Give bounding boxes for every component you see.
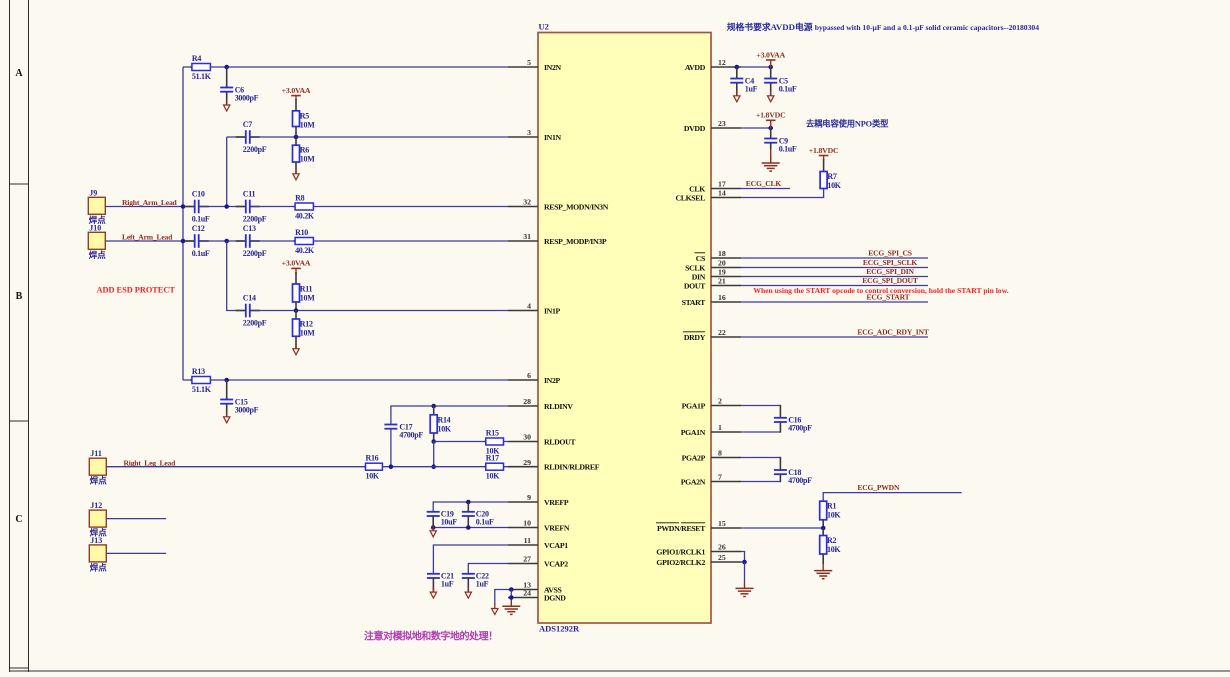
svg-text:R7: R7	[827, 172, 836, 181]
wire IN1P C14 to pin 4	[251, 310, 508, 312]
capacitor C21	[427, 572, 454, 589]
svg-text:R13: R13	[192, 367, 205, 376]
power +3.0VAA	[282, 259, 311, 274]
svg-text:IN1P: IN1P	[544, 307, 561, 316]
pin 6 IN2P	[508, 371, 561, 385]
wire R14 bottom to RLDOUT	[433, 433, 435, 442]
wire rail left vertical	[182, 67, 184, 380]
wire ECG_CLK net	[741, 188, 790, 190]
pin 31 RESP_MODP/IN3P	[508, 232, 607, 246]
pin 26 GPIO1/RCLK1	[656, 543, 741, 557]
svg-text:10K: 10K	[486, 472, 500, 481]
pin 13 AVSS	[508, 581, 562, 595]
svg-text:3000pF: 3000pF	[235, 405, 259, 414]
svg-text:Right_Leg_Lead: Right_Leg_Lead	[124, 458, 177, 467]
pin 3 IN1N	[508, 128, 562, 142]
svg-text:16: 16	[718, 293, 726, 302]
capacitor C10	[185, 190, 210, 224]
wire	[468, 564, 508, 575]
svg-text:C13: C13	[243, 224, 256, 233]
svg-text:VREFP: VREFP	[544, 498, 569, 507]
svg-text:DIN: DIN	[692, 273, 706, 282]
svg-text:焊点: 焊点	[90, 562, 108, 572]
resistor R5	[293, 111, 316, 130]
pin 4 IN1P	[508, 302, 561, 316]
pin 32 RESP_MODN/IN3N	[508, 198, 609, 212]
svg-text:焊点: 焊点	[90, 476, 108, 486]
svg-text:+3.0VAA: +3.0VAA	[282, 259, 311, 268]
svg-text:14: 14	[718, 189, 726, 198]
svg-text:ECG_CLK: ECG_CLK	[746, 179, 782, 188]
ground (earth)	[736, 582, 754, 596]
svg-text:R8: R8	[295, 193, 304, 202]
svg-text:注意对模拟地和数字地的处理！: 注意对模拟地和数字地的处理！	[364, 630, 498, 643]
svg-text:规格书要求AVDD电源 bypassed with 10-μ: 规格书要求AVDD电源 bypassed with 10-μF and a 0.…	[727, 21, 1040, 32]
junction	[224, 239, 229, 244]
svg-text:1uF: 1uF	[745, 84, 758, 93]
resistor R16	[364, 454, 382, 481]
svg-text:PGA1P: PGA1P	[682, 402, 706, 411]
svg-text:RESP_MODN/IN3N: RESP_MODN/IN3N	[544, 203, 609, 212]
svg-text:PGA1N: PGA1N	[681, 428, 706, 437]
svg-text:RLDOUT: RLDOUT	[544, 438, 576, 447]
svg-text:R6: R6	[300, 146, 309, 155]
svg-text:18: 18	[718, 249, 726, 258]
svg-text:ECG_SPI_SCLK: ECG_SPI_SCLK	[863, 258, 917, 267]
pin 11 VCAP1	[508, 536, 568, 550]
capacitor C11	[236, 190, 267, 224]
wire C20 top stem	[467, 502, 469, 512]
svg-text:4700pF: 4700pF	[788, 476, 812, 485]
wire GPIO2 net	[741, 561, 745, 563]
svg-text:VREFN: VREFN	[544, 524, 570, 533]
wire C20 bottom stem	[467, 516, 469, 528]
junction	[294, 308, 299, 313]
wire AVDD net	[741, 66, 771, 68]
svg-text:ADS1292R: ADS1292R	[539, 624, 580, 634]
wire R5 bottom stem	[295, 127, 297, 138]
svg-text:4700pF: 4700pF	[788, 424, 812, 433]
svg-text:10K: 10K	[438, 424, 452, 433]
svg-text:2200pF: 2200pF	[243, 318, 267, 327]
svg-text:2200pF: 2200pF	[243, 145, 267, 154]
junction	[466, 525, 471, 530]
svg-text:VCAP2: VCAP2	[544, 560, 568, 569]
wire RLDIN R16 to pin 29	[382, 466, 508, 468]
svg-text:PGA2N: PGA2N	[681, 478, 706, 487]
pin 12 AVDD	[685, 58, 741, 72]
pin 1 PGA1N	[681, 423, 741, 437]
junction	[431, 439, 436, 444]
svg-text:2200pF: 2200pF	[243, 214, 267, 223]
svg-text:31: 31	[523, 232, 531, 241]
svg-text:4: 4	[527, 302, 531, 311]
svg-text:3000pF: 3000pF	[235, 93, 259, 102]
wire R6 top stem	[295, 137, 297, 145]
svg-text:CLK: CLK	[689, 185, 705, 194]
wire Left_Arm C12 to C13	[200, 240, 246, 242]
svg-text:25: 25	[718, 553, 726, 562]
junction	[224, 65, 229, 70]
ground (arrow)	[293, 169, 299, 180]
svg-text:10K: 10K	[827, 511, 841, 520]
wire C22 bottom stem	[467, 578, 469, 592]
junction	[768, 65, 773, 70]
wire IN1N net left of C7	[227, 136, 245, 138]
wire C6 stem	[226, 67, 228, 87]
wire R5 top stem	[295, 99, 297, 111]
pin 8 PGA2P	[682, 449, 741, 463]
capacitor C9	[764, 136, 797, 153]
wire	[391, 406, 508, 425]
wire R1 bottom stem	[822, 520, 824, 528]
wire Left_Arm C13 to pin 31	[251, 240, 508, 242]
svg-text:10K: 10K	[827, 545, 841, 554]
svg-text:10M: 10M	[300, 120, 315, 129]
svg-text:40.2K: 40.2K	[295, 211, 315, 220]
wire J12 stub	[106, 518, 166, 520]
svg-text:21: 21	[718, 277, 726, 286]
svg-text:R15: R15	[486, 428, 499, 437]
wire	[495, 590, 508, 605]
connector J10	[88, 223, 106, 259]
wire C21 bottom stem	[432, 578, 434, 592]
capacitor C17	[384, 422, 423, 439]
svg-text:GPIO1/RCLK1: GPIO1/RCLK1	[656, 548, 705, 557]
svg-text:ECG_SPI_DIN: ECG_SPI_DIN	[866, 267, 914, 276]
junction	[735, 65, 740, 70]
ground (arrow)	[293, 344, 299, 355]
resistor R14	[430, 415, 452, 434]
power +3.0VAA	[282, 86, 311, 101]
resistor R11	[293, 284, 316, 303]
svg-text:GPIO2/RCLK2: GPIO2/RCLK2	[656, 558, 705, 567]
svg-text:C: C	[15, 514, 22, 525]
wire RLDOUT net	[434, 441, 508, 443]
pin 2 PGA1P	[682, 397, 741, 411]
svg-text:R2: R2	[827, 536, 836, 545]
junction	[389, 464, 394, 469]
pin 10 VREFN	[508, 519, 570, 533]
pin 23 DVDD	[684, 119, 741, 133]
wire R12 bottom stem	[295, 336, 297, 348]
svg-text:B: B	[16, 291, 23, 302]
junction	[181, 204, 186, 209]
svg-text:RESP_MODP/IN3P: RESP_MODP/IN3P	[544, 237, 607, 246]
wire IN1N net right of C7	[251, 136, 508, 138]
junction	[431, 525, 436, 530]
svg-text:J9: J9	[89, 188, 97, 197]
wire C5 bottom stem	[770, 82, 772, 95]
ground (arrow)	[465, 587, 471, 598]
wire C7 drop to Right_Arm net	[226, 137, 228, 207]
junction	[294, 135, 299, 140]
svg-text:R1: R1	[827, 502, 836, 511]
svg-text:START: START	[682, 298, 707, 307]
connector J9	[88, 188, 106, 225]
svg-text:AVDD: AVDD	[685, 63, 706, 72]
capacitor C15	[220, 397, 258, 414]
pin 9 VREFP	[508, 493, 569, 507]
pin 20 SCLK	[685, 259, 741, 273]
junction	[466, 500, 471, 505]
ground (arrow)	[430, 587, 436, 598]
svg-text:0.1uF: 0.1uF	[476, 518, 494, 527]
svg-text:CS: CS	[696, 254, 705, 263]
svg-text:19: 19	[718, 268, 726, 277]
wire DVDD net	[741, 127, 771, 129]
wire C17 bottom to RLDIN net	[390, 428, 392, 466]
svg-text:DOUT: DOUT	[684, 282, 706, 291]
ground (arrow)	[224, 100, 230, 111]
svg-text:DRDY: DRDY	[684, 333, 706, 342]
wire C18 bottom lead	[779, 474, 781, 482]
svg-text:15: 15	[718, 519, 726, 528]
svg-text:10K: 10K	[366, 472, 380, 481]
svg-text:7: 7	[718, 473, 722, 482]
svg-text:1: 1	[718, 423, 722, 432]
svg-text:J13: J13	[90, 536, 102, 545]
wire C4 top stem	[736, 67, 738, 79]
wire ECG_START net	[741, 301, 928, 303]
svg-text:R10: R10	[295, 228, 308, 237]
svg-text:26: 26	[718, 543, 726, 552]
junction	[224, 378, 229, 383]
svg-text:0.1uF: 0.1uF	[779, 84, 797, 93]
wire C15 lower stem	[226, 403, 228, 416]
svg-text:32: 32	[523, 198, 531, 207]
svg-text:J10: J10	[89, 223, 101, 232]
connector J12	[89, 501, 107, 537]
ground (arrow)	[734, 91, 740, 102]
power +1.8VDC (R7)	[809, 146, 839, 161]
svg-text:U2: U2	[539, 22, 549, 32]
svg-text:R11: R11	[300, 285, 313, 294]
svg-text:0.1uF: 0.1uF	[779, 144, 797, 153]
junction	[821, 526, 826, 531]
wire C18 top lead	[779, 457, 781, 470]
ground (earth)	[762, 157, 780, 171]
svg-text:11: 11	[524, 536, 531, 545]
svg-text:40.2K: 40.2K	[295, 246, 315, 255]
pin 17 CLK	[689, 180, 741, 194]
svg-text:5: 5	[527, 58, 531, 67]
pin 30 RLDOUT	[508, 433, 576, 447]
wire DGND net	[508, 597, 514, 599]
svg-text:A: A	[15, 68, 23, 79]
capacitor C20	[462, 510, 494, 527]
resistor R8	[294, 193, 315, 220]
ground (arrow)	[224, 412, 230, 423]
pin 7 PGA2N	[681, 473, 741, 487]
svg-text:+1.8VDC: +1.8VDC	[809, 146, 839, 155]
wire GPIO ground column	[744, 562, 746, 583]
svg-text:ECG_START: ECG_START	[867, 292, 910, 301]
svg-text:ECG_ADC_RDY_INT: ECG_ADC_RDY_INT	[857, 327, 928, 336]
wire IN2N net (R4 row)	[183, 66, 508, 68]
pin 22 DRDY	[683, 328, 741, 342]
svg-text:VCAP1: VCAP1	[544, 541, 568, 550]
wire ECG_SPI_CS net	[741, 257, 928, 259]
wire R2 top stem	[822, 528, 824, 536]
svg-text:0.1uF: 0.1uF	[192, 249, 210, 258]
svg-text:C11: C11	[243, 190, 256, 199]
svg-text:10: 10	[523, 519, 531, 528]
svg-text:9: 9	[527, 493, 531, 502]
svg-text:10uF: 10uF	[441, 518, 458, 527]
svg-text:28: 28	[523, 397, 531, 406]
svg-text:10M: 10M	[300, 294, 315, 303]
svg-text:+1.8VDC: +1.8VDC	[756, 111, 786, 120]
svg-text:22: 22	[718, 328, 726, 337]
svg-text:C14: C14	[243, 294, 256, 303]
svg-text:C7: C7	[243, 120, 252, 129]
junction	[509, 587, 514, 592]
wire IN2P net (R13 row)	[183, 379, 508, 381]
wire Right_Arm C10 to C11	[200, 206, 246, 208]
junction	[742, 560, 747, 565]
svg-text:SCLK: SCLK	[685, 264, 705, 273]
junction	[509, 595, 514, 600]
svg-text:6: 6	[527, 371, 531, 380]
wire R12 top stem	[295, 311, 297, 320]
junction	[431, 404, 436, 409]
wire C16 bottom lead	[779, 422, 781, 433]
resistor R7	[820, 172, 842, 191]
resistor R4	[190, 54, 211, 81]
svg-text:焊点: 焊点	[89, 250, 107, 260]
connector J11	[89, 449, 107, 486]
svg-text:1uF: 1uF	[441, 580, 454, 589]
wire PGA2P net	[741, 457, 780, 459]
svg-text:4700pF: 4700pF	[399, 430, 423, 439]
pin 19 DIN	[692, 268, 741, 282]
IC U2 body	[538, 33, 711, 624]
capacitor C7	[236, 120, 267, 154]
capacitor C22	[462, 572, 489, 589]
wire	[433, 545, 508, 574]
resistor R17	[484, 454, 503, 481]
pin 28 RLDINV	[508, 397, 573, 411]
pin 18 CS	[695, 249, 742, 263]
svg-text:51.1K: 51.1K	[192, 385, 212, 394]
pin 14 CLKSEL	[675, 189, 741, 203]
svg-text:1uF: 1uF	[476, 580, 489, 589]
svg-text:CLKSEL: CLKSEL	[675, 194, 705, 203]
svg-text:8: 8	[718, 449, 722, 458]
svg-text:DVDD: DVDD	[684, 124, 706, 133]
svg-text:ECG_SPI_CS: ECG_SPI_CS	[868, 248, 912, 257]
capacitor C14	[236, 294, 267, 328]
connector J13	[89, 536, 107, 573]
wire R6 bottom stem	[295, 162, 297, 174]
wire R14 top stem	[433, 406, 435, 415]
junction	[768, 126, 773, 131]
junction	[224, 204, 229, 209]
capacitor C13	[236, 224, 267, 258]
junction	[431, 464, 436, 469]
wire Right_Arm_Lead J9 to C10	[105, 206, 194, 208]
svg-text:10M: 10M	[300, 155, 315, 164]
svg-text:ADD ESD PROTECT: ADD ESD PROTECT	[97, 285, 176, 294]
wire PGA2N net	[741, 481, 780, 483]
wire PWDN/RESET net	[741, 527, 823, 529]
wire C9 top stem	[770, 128, 772, 139]
svg-text:J12: J12	[90, 501, 102, 510]
ground (earth)	[502, 600, 520, 614]
svg-text:23: 23	[718, 119, 726, 128]
svg-text:27: 27	[523, 555, 531, 564]
wire ECG_SPI_SCLK net	[741, 267, 928, 269]
capacitor C18	[774, 468, 812, 485]
svg-text:20: 20	[718, 259, 726, 268]
wire	[433, 502, 508, 512]
capacitor C5	[764, 76, 797, 93]
wire C15 stem	[226, 380, 228, 400]
svg-text:PWDN/RESET: PWDN/RESET	[657, 524, 706, 533]
wire ECG_ADC_RDY_INT net	[741, 336, 928, 338]
ground (arrow)	[492, 604, 498, 615]
pin 16 START	[682, 293, 741, 307]
svg-text:PGA2P: PGA2P	[682, 454, 706, 463]
svg-text:R16: R16	[366, 454, 379, 463]
capacitor C6	[220, 85, 258, 102]
power +1.8VDC (DVDD)	[756, 111, 786, 128]
svg-text:+3.0VAA: +3.0VAA	[756, 50, 785, 59]
svg-text:去耦电容使用NPO类型: 去耦电容使用NPO类型	[806, 119, 889, 129]
pin 25 GPIO2/RCLK2	[656, 553, 741, 567]
pin 24 DGND	[508, 589, 566, 603]
svg-text:C12: C12	[192, 224, 205, 233]
wire R11 bottom stem	[295, 302, 297, 311]
wire R14 column RLDOUT to RLDIN	[433, 442, 435, 467]
wire PGA1P net	[741, 405, 780, 407]
pin 21 DOUT	[684, 277, 741, 291]
pin 5 IN2N	[508, 58, 562, 72]
wire	[741, 188, 824, 197]
capacitor C12	[185, 224, 210, 258]
svg-text:C10: C10	[192, 190, 205, 199]
svg-text:RLDINV: RLDINV	[544, 402, 573, 411]
wire	[741, 552, 745, 563]
svg-text:29: 29	[523, 458, 531, 467]
svg-text:IN1N: IN1N	[544, 133, 562, 142]
svg-text:R12: R12	[300, 320, 313, 329]
wire Left_Arm_Lead J10 to C12	[105, 240, 194, 242]
capacitor C4	[730, 76, 757, 93]
svg-text:17: 17	[718, 180, 726, 189]
svg-text:Right_Arm_Lead: Right_Arm_Lead	[122, 198, 178, 207]
resistor R15	[484, 428, 503, 455]
wire C4 bottom stem	[736, 82, 738, 95]
ground (arrow)	[768, 91, 774, 102]
wire R7 top stem	[823, 159, 825, 172]
wire Right_Arm C11 to pin 32	[251, 206, 508, 208]
capacitor C19	[427, 510, 458, 527]
wire ECG_SPI_DOUT net	[741, 285, 928, 287]
ground (arrow)	[430, 526, 436, 537]
pin 29 RLDIN/RLDREF	[508, 458, 600, 472]
resistor R10	[294, 228, 315, 255]
wire R2 bottom stem	[822, 554, 824, 565]
wire C16 top lead	[779, 405, 781, 418]
svg-text:12: 12	[718, 58, 726, 67]
svg-text:R17: R17	[486, 454, 499, 463]
wire J13 stub	[106, 552, 166, 554]
svg-text:IN2P: IN2P	[544, 376, 561, 385]
svg-text:0.1uF: 0.1uF	[192, 214, 210, 223]
svg-text:ECG_SPI_DOUT: ECG_SPI_DOUT	[862, 276, 918, 285]
